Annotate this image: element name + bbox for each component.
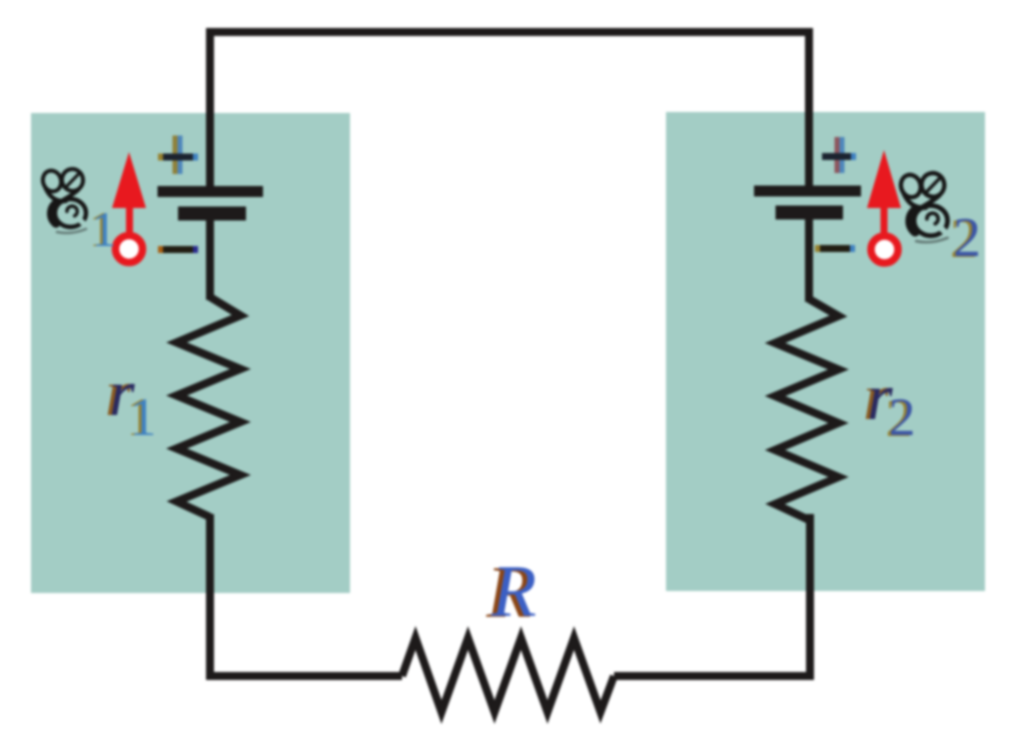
- battery B2 top plate: [754, 186, 861, 197]
- label EMF2 script E: [898, 171, 947, 242]
- resistor R: [402, 638, 614, 712]
- battery 1 shaded box: [31, 113, 350, 593]
- plus sign battery 1: [158, 136, 198, 175]
- svg-text:1: 1: [130, 387, 157, 447]
- wire battery1 to r1: [206, 214, 214, 300]
- svg-text:R: R: [490, 551, 536, 633]
- label r1: [105, 357, 135, 430]
- minus sign battery 2: [815, 245, 855, 252]
- resistor r2: [775, 299, 839, 520]
- battery B2 bottom plate: [776, 206, 844, 220]
- wire battery2 to r2: [805, 214, 813, 302]
- label EMF1 subscript 1: [89, 201, 117, 257]
- wire r1 to bottom: [210, 514, 402, 676]
- svg-text:2: 2: [953, 207, 981, 269]
- battery 2 shaded box: [666, 112, 985, 591]
- emf arrow 2: [867, 150, 901, 234]
- svg-text:1: 1: [92, 201, 117, 257]
- minus sign battery 1: [158, 246, 198, 253]
- battery B1 top plate: [158, 186, 264, 197]
- label EMF1 script E: [40, 167, 86, 233]
- resistor r1: [177, 297, 241, 517]
- emf arrow 1: [112, 152, 146, 234]
- label r2: [863, 361, 893, 434]
- svg-text:2: 2: [889, 387, 916, 447]
- label EMF2 subscript 2: [950, 207, 981, 270]
- plus sign battery 2: [822, 137, 856, 173]
- label R: [485, 551, 536, 634]
- battery B1 bottom plate: [178, 207, 246, 221]
- wire R to battery2 branch: [614, 514, 810, 676]
- node terminal 2: [871, 236, 898, 263]
- wire top loop: [210, 32, 809, 192]
- node terminal 1: [116, 236, 143, 263]
